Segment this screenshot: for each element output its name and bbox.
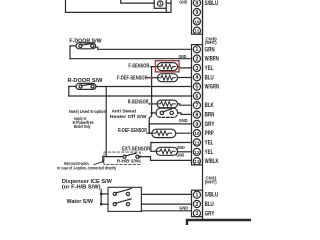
svg-text:BLU: BLU — [205, 202, 214, 208]
svg-text:(or F-H/B S/W): (or F-H/B S/W) — [62, 185, 101, 191]
svg-text:3: 3 — [195, 66, 198, 72]
svg-text:W/BLK: W/BLK — [205, 159, 219, 165]
svg-text:YEL: YEL — [205, 141, 214, 147]
svg-text:Note) Used E-option: Note) Used E-option — [69, 109, 106, 114]
svg-text:GRY: GRY — [205, 211, 215, 217]
svg-text:(WHT): (WHT) — [205, 40, 217, 45]
svg-text:4: 4 — [195, 75, 198, 81]
svg-text:R-H/B S/W: R-H/B S/W — [117, 158, 140, 163]
svg-text:10: 10 — [194, 19, 199, 24]
svg-text:PRP: PRP — [205, 131, 214, 137]
svg-text:9: 9 — [195, 122, 198, 128]
svg-text:GND: GND — [176, 153, 184, 158]
svg-text:W/GRN: W/GRN — [205, 85, 219, 91]
svg-text:BLU: BLU — [205, 75, 214, 81]
svg-text:13: 13 — [194, 159, 200, 164]
svg-text:6: 6 — [195, 94, 198, 100]
svg-text:F-DOOR S/W: F-DOOR S/W — [69, 38, 102, 44]
svg-text:GND: GND — [179, 118, 188, 123]
svg-text:GRN: GRN — [205, 47, 215, 53]
svg-text:R-SENSOR: R-SENSOR — [128, 99, 149, 105]
svg-text:(WHT): (WHT) — [205, 180, 217, 185]
svg-text:Anti Sweat: Anti Sweat — [112, 109, 137, 114]
svg-text:11: 11 — [194, 140, 199, 145]
svg-text:YEL: YEL — [205, 66, 214, 72]
svg-text:GND: GND — [179, 54, 187, 59]
svg-text:8: 8 — [195, 1, 198, 7]
svg-text:GRY: GRY — [205, 122, 215, 128]
svg-text:12: 12 — [194, 150, 200, 155]
svg-text:F-SENSOR: F-SENSOR — [128, 63, 149, 69]
svg-text:10: 10 — [194, 131, 199, 136]
svg-text:3: 3 — [195, 211, 198, 217]
svg-text:GND: GND — [177, 145, 185, 150]
svg-text:BRN: BRN — [205, 113, 215, 119]
svg-text:9: 9 — [195, 10, 198, 16]
svg-text:GND: GND — [179, 206, 188, 211]
svg-text:Water S/W: Water S/W — [67, 199, 94, 205]
svg-text:2: 2 — [195, 202, 198, 208]
svg-text:EXT-SENSOR: EXT-SENSOR — [122, 147, 151, 153]
svg-text:S/BLU: S/BLU — [205, 193, 219, 199]
svg-text:GND: GND — [179, 0, 187, 4]
svg-text:11: 11 — [194, 29, 199, 34]
svg-text:Heater Off S/W: Heater Off S/W — [110, 114, 147, 119]
svg-text:F-DEF-SENSOR: F-DEF-SENSOR — [117, 76, 148, 82]
svg-text:1: 1 — [195, 47, 198, 53]
svg-text:5: 5 — [195, 85, 198, 91]
svg-text:R-DOOR S/W: R-DOOR S/W — [68, 78, 104, 84]
svg-text:YEL: YEL — [205, 150, 214, 156]
svg-text:2: 2 — [195, 57, 198, 63]
svg-text:1: 1 — [195, 193, 198, 199]
svg-text:W/BRN: W/BRN — [205, 57, 219, 63]
svg-text:In case of J-option, connected: In case of J-option, connected directly — [57, 165, 116, 170]
svg-text:BLK: BLK — [205, 103, 215, 109]
svg-text:S/BLU: S/BLU — [205, 1, 219, 7]
svg-text:8: 8 — [195, 113, 198, 119]
svg-text:Model Only: Model Only — [74, 124, 91, 129]
svg-text:R-DEF-SENSOR: R-DEF-SENSOR — [118, 128, 147, 134]
svg-text:7: 7 — [195, 103, 198, 109]
